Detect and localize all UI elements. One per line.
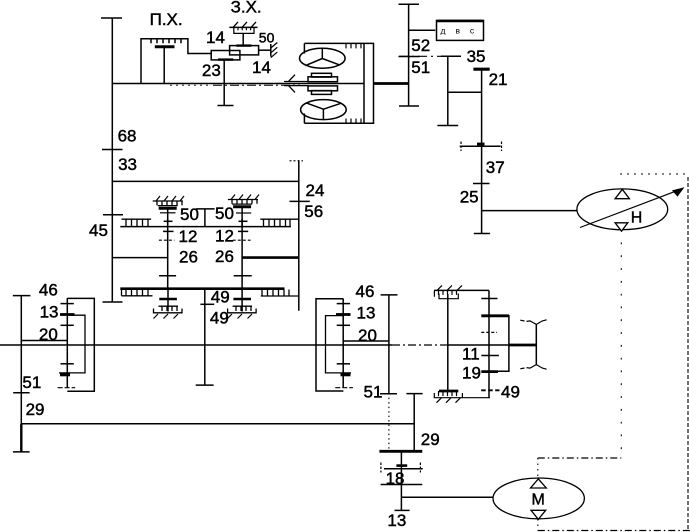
svg-text:П.Х.: П.Х. [150, 10, 183, 29]
svg-text:19: 19 [462, 364, 481, 383]
svg-text:37: 37 [486, 158, 505, 177]
svg-text:12: 12 [215, 227, 234, 246]
svg-text:51: 51 [364, 383, 383, 402]
svg-text:46: 46 [356, 282, 375, 301]
svg-text:14: 14 [252, 58, 271, 77]
svg-text:21: 21 [489, 70, 508, 89]
svg-text:11: 11 [462, 345, 480, 364]
svg-text:68: 68 [118, 127, 137, 146]
svg-text:51: 51 [411, 58, 430, 77]
svg-text:13: 13 [40, 303, 59, 322]
svg-text:20: 20 [39, 325, 58, 344]
svg-text:24: 24 [306, 181, 325, 200]
svg-text:14: 14 [206, 28, 225, 47]
svg-text:13: 13 [357, 304, 376, 323]
svg-text:12: 12 [179, 227, 198, 246]
svg-text:23: 23 [202, 61, 221, 80]
svg-text:20: 20 [358, 326, 377, 345]
svg-text:50: 50 [180, 205, 199, 224]
svg-text:29: 29 [421, 430, 440, 449]
svg-text:49: 49 [210, 309, 229, 328]
svg-text:56: 56 [304, 202, 323, 221]
svg-text:33: 33 [118, 155, 137, 174]
svg-text:М: М [532, 492, 545, 509]
svg-text:46: 46 [39, 280, 58, 299]
svg-text:35: 35 [467, 47, 486, 66]
svg-text:51: 51 [22, 373, 41, 392]
svg-text:двс: двс [441, 26, 485, 36]
svg-text:З.Х.: З.Х. [231, 0, 262, 17]
svg-text:18: 18 [386, 469, 405, 488]
svg-text:29: 29 [26, 400, 45, 419]
svg-text:49: 49 [211, 288, 230, 307]
svg-text:26: 26 [179, 248, 198, 267]
svg-text:49: 49 [501, 382, 520, 401]
svg-text:25: 25 [460, 188, 479, 207]
svg-text:50: 50 [215, 204, 234, 223]
svg-text:Н: Н [631, 210, 643, 227]
svg-text:50: 50 [259, 30, 275, 46]
svg-text:13: 13 [387, 511, 406, 530]
svg-text:26: 26 [215, 247, 234, 266]
svg-text:52: 52 [411, 36, 430, 55]
svg-text:45: 45 [89, 221, 108, 240]
